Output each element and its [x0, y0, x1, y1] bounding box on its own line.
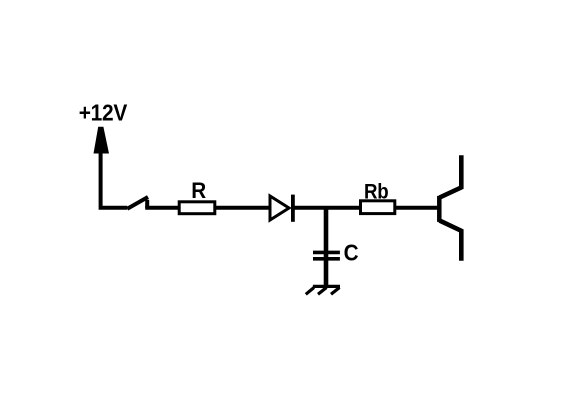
wire: resistor R to diode — [215, 206, 270, 210]
diode D1 cathode bar — [291, 195, 295, 222]
wire: resistor Rb to transistor base — [395, 206, 439, 210]
label R — [191, 177, 206, 203]
ground hatch slash 3 — [306, 288, 314, 295]
power supply arrow (+12V terminal) — [94, 127, 110, 154]
switch S1 blade — [127, 197, 148, 209]
capacitor C top plate — [313, 251, 340, 255]
transistor Q1 collector lead — [440, 155, 462, 197]
ground bar — [313, 285, 340, 288]
wire: switch to resistor R — [145, 206, 179, 210]
diode D1 triangle (anode) — [270, 196, 289, 220]
transistor Q1 emitter lead — [440, 221, 462, 261]
wire: supply vertical drop and horizontal run to switch — [101, 151, 128, 208]
svg-text:+12V: +12V — [79, 100, 128, 126]
svg-text:Rb: Rb — [364, 180, 388, 203]
node: junction to capacitor branch, vertical wire down to ground — [324, 208, 329, 287]
ground hatch slash 1 — [331, 288, 340, 295]
label Rb — [364, 180, 388, 203]
capacitor C bottom plate — [313, 257, 340, 261]
label +12V (supply net) — [79, 100, 128, 126]
ground hatch slash 2 — [318, 288, 327, 295]
switch S1 right contact stub — [145, 200, 149, 208]
wire: diode to resistor Rb (through node) — [293, 206, 361, 210]
svg-text:R: R — [191, 177, 206, 203]
resistor Rb body — [361, 201, 395, 214]
svg-text:C: C — [344, 240, 359, 266]
label C — [344, 240, 359, 266]
transistor Q1 base bar — [437, 196, 442, 222]
resistor R body — [179, 202, 215, 214]
